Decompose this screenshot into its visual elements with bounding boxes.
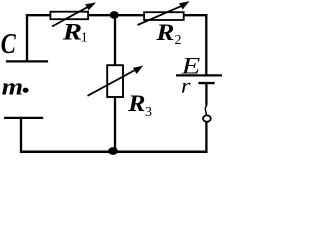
- wire top-middle horizontal: [88, 14, 144, 16]
- battery E long plate: [176, 74, 223, 76]
- wire top-right horizontal: [184, 14, 207, 16]
- wire right vertical: [205, 14, 207, 74]
- label R1: [62, 19, 88, 44]
- wire battery to switch: [205, 83, 207, 105]
- resistor R2: [138, 1, 190, 25]
- particle dot m: [23, 88, 29, 93]
- label R3: [127, 91, 152, 120]
- svg-text:R: R: [62, 19, 83, 44]
- resistor R1: [50, 3, 96, 27]
- svg-text:3: 3: [145, 105, 152, 120]
- svg-text:R: R: [127, 91, 145, 116]
- switch circle: [203, 115, 211, 121]
- svg-text:r: r: [181, 75, 192, 97]
- node junction bottom: [108, 147, 118, 155]
- battery short plate: [198, 82, 214, 84]
- svg-text:1: 1: [81, 30, 88, 45]
- wire switch to bottom: [205, 122, 207, 153]
- resistor R3: [88, 65, 144, 97]
- wire left vertical: [26, 14, 28, 60]
- svg-text:2: 2: [175, 33, 182, 48]
- capacitor C top plate: [6, 60, 48, 62]
- wire middle vertical upper: [114, 15, 116, 65]
- svg-text:C: C: [1, 29, 16, 60]
- svg-text:R: R: [155, 20, 174, 45]
- wire bottom-left vertical: [20, 118, 22, 152]
- wire top-left horizontal: [26, 14, 52, 16]
- wire bottom horizontal: [20, 151, 208, 154]
- capacitor C bottom plate: [4, 117, 43, 119]
- svg-text:m: m: [2, 74, 24, 100]
- node junction top: [110, 11, 119, 19]
- label R2: [155, 20, 181, 48]
- switch blade: [205, 105, 207, 116]
- wire middle vertical lower: [114, 97, 116, 152]
